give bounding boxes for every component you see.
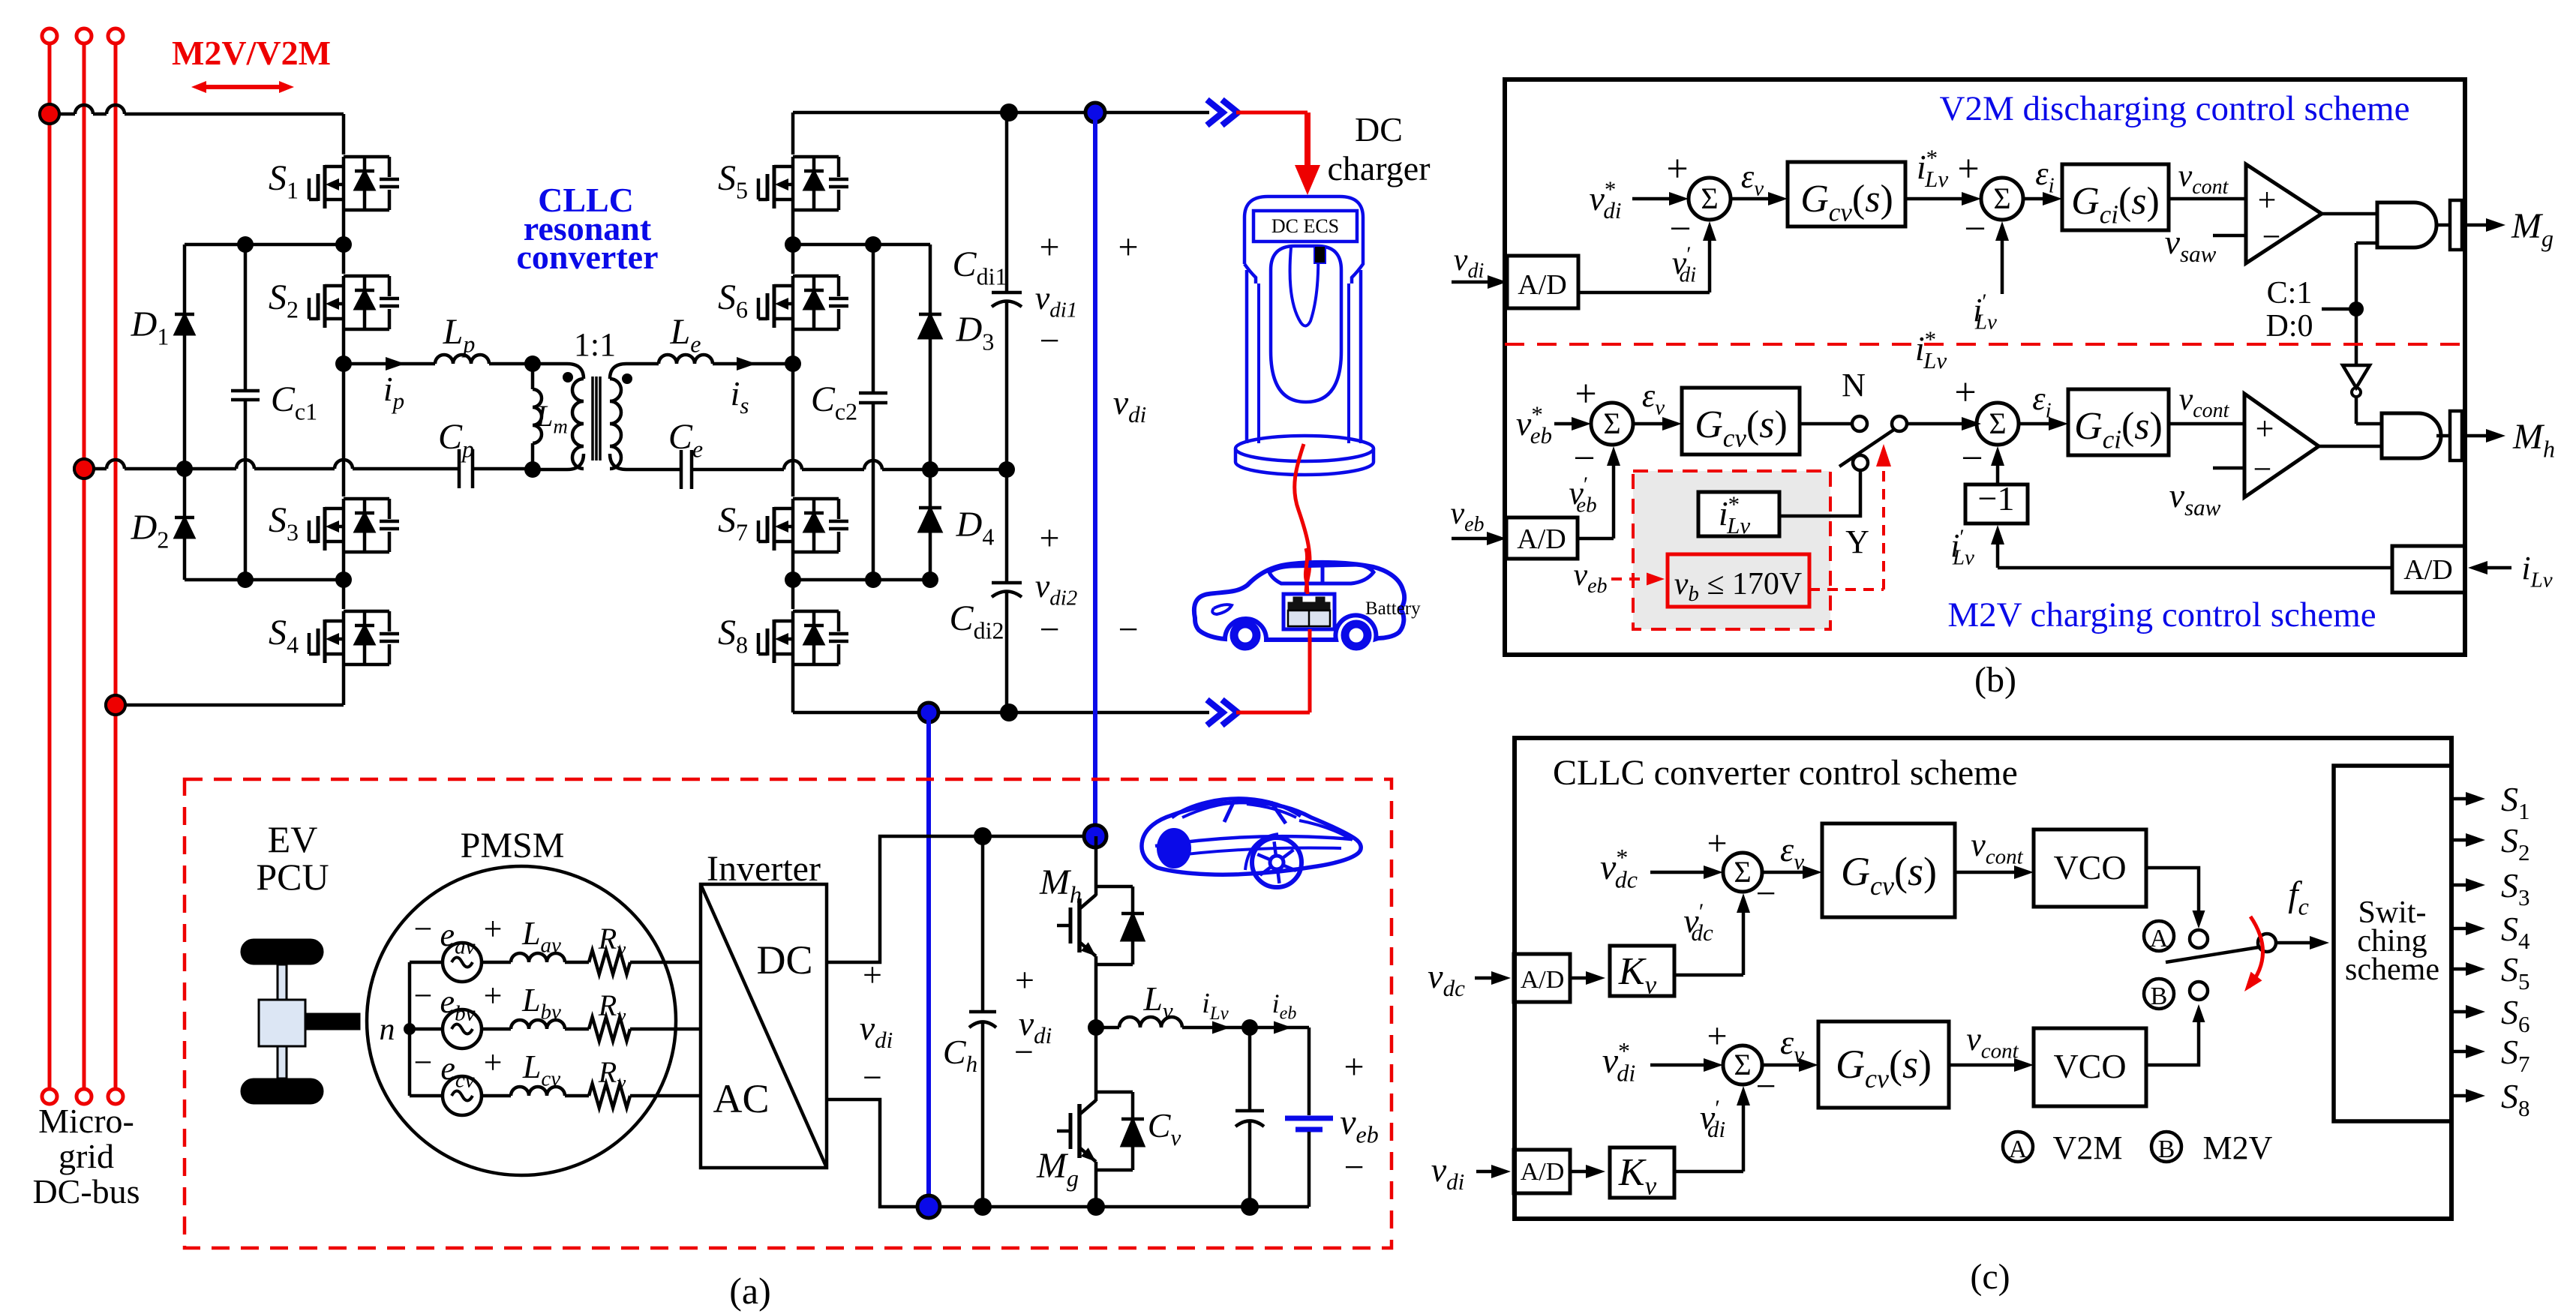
svg-text:+: + <box>1344 1047 1364 1087</box>
svg-text:A: A <box>2150 925 2169 952</box>
svg-text:PMSM: PMSM <box>461 826 565 865</box>
svg-text:A: A <box>2009 1135 2028 1163</box>
svg-text:CLLC converter control scheme: CLLC converter control scheme <box>1553 753 2018 793</box>
svg-text:+: + <box>863 955 882 994</box>
svg-text:C:1: C:1 <box>2267 276 2313 310</box>
svg-text:VCO: VCO <box>2053 848 2126 886</box>
svg-text:−: − <box>1039 610 1059 649</box>
svg-text:scheme: scheme <box>2345 952 2439 987</box>
svg-text:−: − <box>1344 1147 1364 1187</box>
svg-text:converter: converter <box>517 238 659 276</box>
svg-text:Σ: Σ <box>1993 181 2010 215</box>
svg-text:+: + <box>484 977 503 1014</box>
svg-text:+: + <box>1707 823 1727 863</box>
svg-text:DC-bus: DC-bus <box>32 1172 140 1210</box>
svg-text:DC ECS: DC ECS <box>1271 215 1339 237</box>
svg-text:(a): (a) <box>729 1270 771 1312</box>
svg-text:−1: −1 <box>1978 479 2015 517</box>
svg-text:DC: DC <box>1355 110 1403 148</box>
svg-text:Σ: Σ <box>1989 406 2006 440</box>
svg-text:−: − <box>414 977 433 1014</box>
svg-text:+: + <box>1575 373 1596 415</box>
svg-text:+: + <box>1015 961 1034 999</box>
svg-text:−: − <box>2253 451 2272 487</box>
svg-text:DC: DC <box>756 937 812 982</box>
svg-text:(b): (b) <box>1974 660 2016 700</box>
svg-text:B: B <box>2158 1135 2175 1163</box>
svg-text:Σ: Σ <box>1734 1048 1751 1081</box>
svg-text:charger: charger <box>1327 149 1430 187</box>
svg-text:VCO: VCO <box>2053 1047 2126 1085</box>
svg-text:+: + <box>484 910 503 947</box>
svg-text:−: − <box>863 1058 882 1096</box>
svg-text:−: − <box>2262 218 2281 255</box>
svg-text:−: − <box>1118 610 1138 649</box>
svg-text:M2V charging control scheme: M2V charging control scheme <box>1947 595 2376 634</box>
svg-text:Micro-: Micro- <box>38 1102 134 1140</box>
svg-text:−: − <box>414 1044 433 1081</box>
svg-text:Σ: Σ <box>1701 181 1718 215</box>
svg-text:−: − <box>1014 1033 1034 1071</box>
svg-text:A/D: A/D <box>1521 1158 1565 1186</box>
svg-text:−: − <box>414 910 433 947</box>
svg-text:A/D: A/D <box>1518 269 1566 301</box>
svg-text:+: + <box>1707 1016 1727 1056</box>
svg-text:−: − <box>1961 437 1983 480</box>
svg-text:−: − <box>1755 1066 1776 1106</box>
svg-text:+: + <box>1666 148 1688 190</box>
svg-text:N: N <box>1842 367 1866 403</box>
svg-text:+: + <box>484 1044 503 1081</box>
svg-text:V2M: V2M <box>2053 1129 2123 1166</box>
svg-text:Battery: Battery <box>1365 598 1421 619</box>
svg-text:−: − <box>1039 321 1059 361</box>
svg-text:+: + <box>1039 227 1059 267</box>
svg-text:PCU: PCU <box>256 856 329 898</box>
svg-text:+: + <box>2258 181 2277 218</box>
svg-text:(c): (c) <box>1970 1257 2010 1297</box>
svg-text:A/D: A/D <box>2403 554 2452 586</box>
svg-text:M2V/V2M: M2V/V2M <box>172 34 331 72</box>
svg-text:+: + <box>1118 227 1138 267</box>
svg-text:1:1: 1:1 <box>574 326 616 363</box>
svg-text:EV: EV <box>268 818 318 860</box>
svg-text:+: + <box>1039 518 1059 558</box>
svg-text:−: − <box>1755 874 1776 913</box>
svg-text:Inverter: Inverter <box>707 849 821 889</box>
svg-text:Y: Y <box>1845 523 1869 560</box>
svg-text:grid: grid <box>59 1137 114 1175</box>
svg-text:M2V: M2V <box>2203 1129 2273 1166</box>
svg-text:D:0: D:0 <box>2266 309 2313 343</box>
svg-text:Σ: Σ <box>1734 855 1751 889</box>
svg-text:B: B <box>2151 982 2168 1010</box>
svg-text:+: + <box>1957 148 1979 190</box>
svg-text:+: + <box>1954 371 1976 414</box>
svg-text:−: − <box>1964 208 1986 250</box>
svg-text:V2M discharging control scheme: V2M discharging control scheme <box>1940 89 2410 128</box>
svg-text:n: n <box>380 1012 395 1047</box>
svg-text:Σ: Σ <box>1603 406 1620 440</box>
svg-text:A/D: A/D <box>1521 966 1565 994</box>
svg-text:A/D: A/D <box>1517 523 1566 555</box>
svg-text:AC: AC <box>713 1076 769 1121</box>
svg-text:+: + <box>2256 410 2274 447</box>
